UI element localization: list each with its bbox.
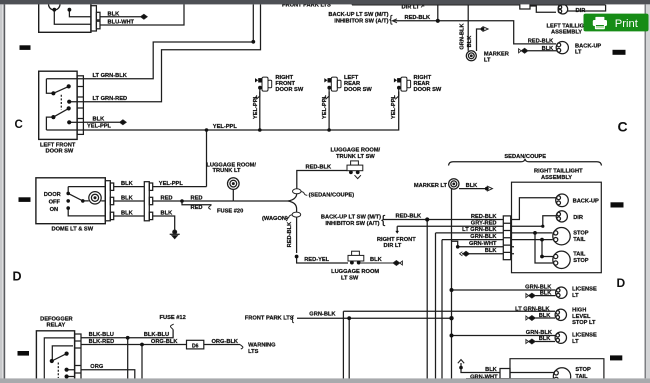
svg-text:FUSE #12: FUSE #12	[160, 315, 186, 321]
svg-text:LT GRN-BLK: LT GRN-BLK	[462, 227, 497, 233]
svg-text:YEL-PPL: YEL-PPL	[213, 124, 238, 130]
svg-text:YEL-PPL: YEL-PPL	[159, 181, 184, 187]
svg-text:DIR: DIR	[573, 215, 583, 221]
svg-text:FRONT PARK LTS: FRONT PARK LTS	[245, 316, 294, 322]
svg-text:{: {	[381, 212, 385, 226]
svg-text:ASSEMBLY: ASSEMBLY	[551, 30, 582, 36]
svg-text:OFF: OFF	[49, 199, 61, 205]
svg-text:BACK-UP LT SW (M/T): BACK-UP LT SW (M/T)	[321, 214, 381, 220]
svg-text:FUSE #20: FUSE #20	[217, 209, 243, 215]
svg-text:ASSEMBLY: ASSEMBLY	[541, 175, 572, 181]
svg-text:INHIBITOR SW (A/T): INHIBITOR SW (A/T)	[334, 18, 388, 24]
svg-text:RED: RED	[161, 196, 173, 202]
svg-text:RED-BLK: RED-BLK	[306, 165, 332, 171]
svg-text:BLK: BLK	[161, 211, 174, 217]
svg-text:BACK-UP: BACK-UP	[573, 199, 599, 205]
svg-text:D: D	[13, 269, 22, 283]
svg-text:LT: LT	[572, 293, 579, 299]
svg-text:TAIL: TAIL	[573, 252, 586, 258]
svg-text:C: C	[618, 119, 628, 135]
svg-text:BLK: BLK	[467, 35, 473, 48]
svg-text:ON: ON	[50, 207, 59, 213]
svg-text:BLK: BLK	[542, 46, 555, 52]
svg-text:BLK: BLK	[485, 367, 498, 373]
svg-text:DOOR: DOOR	[44, 192, 61, 198]
svg-text:DOME LT & SW: DOME LT & SW	[52, 226, 94, 232]
svg-text:DIR LT: DIR LT	[402, 4, 420, 10]
svg-text:BLK-BLU: BLK-BLU	[144, 332, 169, 338]
svg-text:ORG-BLK: ORG-BLK	[212, 339, 239, 345]
svg-text:BLK: BLK	[108, 11, 121, 17]
svg-text:DOOR SW: DOOR SW	[414, 87, 442, 93]
svg-text:BLK: BLK	[93, 116, 106, 122]
svg-text:LT GRN-BLK: LT GRN-BLK	[515, 306, 550, 312]
svg-text:LTS: LTS	[248, 349, 259, 355]
svg-text:Print: Print	[615, 18, 639, 30]
svg-text:STOP: STOP	[573, 231, 589, 237]
svg-text:RED: RED	[191, 195, 203, 201]
svg-text:BLK: BLK	[121, 196, 134, 202]
svg-text:STOP: STOP	[573, 258, 589, 264]
svg-text:DOOR SW: DOOR SW	[344, 87, 372, 93]
svg-text:RIGHT TAILLIGHT: RIGHT TAILLIGHT	[534, 169, 583, 175]
svg-text:TRUNK LT SW: TRUNK LT SW	[336, 154, 375, 160]
svg-text:YEL-PPL: YEL-PPL	[391, 94, 397, 119]
svg-text:RED-BLK: RED-BLK	[287, 221, 293, 247]
svg-text:ORG: ORG	[90, 364, 104, 370]
svg-text:BLK: BLK	[540, 290, 553, 296]
svg-text:BACK-UP LT SW (M/T): BACK-UP LT SW (M/T)	[328, 12, 388, 18]
svg-text:WARNING: WARNING	[248, 343, 276, 349]
svg-text:SEDAN/COUPE: SEDAN/COUPE	[504, 154, 546, 160]
svg-text:BLK: BLK	[370, 257, 383, 263]
svg-text:BLK-RED: BLK-RED	[89, 339, 115, 345]
svg-text:C: C	[15, 119, 23, 131]
svg-text:RED-BLK: RED-BLK	[471, 214, 497, 220]
svg-text:D6: D6	[192, 344, 199, 350]
svg-text:BLK: BLK	[539, 336, 552, 342]
svg-text:BLU-WHT: BLU-WHT	[108, 20, 135, 26]
svg-text:LT SW: LT SW	[341, 275, 359, 281]
svg-text:RED-BLK: RED-BLK	[405, 15, 431, 21]
svg-text:DOOR SW: DOOR SW	[46, 148, 74, 154]
svg-text:LUGGAGE ROOM: LUGGAGE ROOM	[331, 269, 379, 275]
svg-text:RED-BLK: RED-BLK	[396, 214, 422, 220]
svg-text:RED-YEL: RED-YEL	[304, 257, 329, 263]
svg-text:GRN-BLK: GRN-BLK	[460, 23, 466, 50]
svg-text:LT GRN-BLK: LT GRN-BLK	[93, 73, 128, 79]
svg-text:INHIBITOR SW (A/T): INHIBITOR SW (A/T)	[325, 221, 379, 227]
svg-text:LEVEL: LEVEL	[572, 314, 591, 320]
svg-text:RELAY: RELAY	[47, 323, 66, 329]
svg-text:RIGHT FRONT: RIGHT FRONT	[377, 237, 416, 243]
svg-text:LUGGAGE ROOM/: LUGGAGE ROOM/	[331, 148, 381, 154]
svg-text:(SEDAN/COUPE): (SEDAN/COUPE)	[309, 193, 355, 199]
svg-text:BLK-BLU: BLK-BLU	[89, 332, 114, 338]
svg-text:MARKER LT: MARKER LT	[414, 183, 448, 189]
svg-text:LT: LT	[484, 57, 491, 63]
svg-text:LT GRN-RED: LT GRN-RED	[93, 96, 128, 102]
svg-text:ORG-BLK: ORG-BLK	[151, 339, 178, 345]
svg-text:DIR: DIR	[576, 8, 586, 14]
svg-text:HIGH: HIGH	[572, 308, 586, 314]
svg-text:YEL-PPL: YEL-PPL	[253, 94, 259, 119]
svg-text:GRN-BLK: GRN-BLK	[470, 234, 497, 240]
svg-text:STOP: STOP	[575, 367, 591, 373]
svg-text:(WAGON): (WAGON)	[262, 216, 288, 222]
svg-text:LICENSE: LICENSE	[572, 287, 597, 293]
svg-text:BLK: BLK	[121, 181, 134, 187]
svg-text:DEFOGGER: DEFOGGER	[40, 316, 73, 322]
svg-text:LEFT FRONT: LEFT FRONT	[40, 142, 76, 148]
svg-text:BLK: BLK	[121, 211, 134, 217]
svg-text:TRUNK LT: TRUNK LT	[213, 168, 242, 174]
svg-text:TAIL: TAIL	[573, 237, 586, 243]
svg-text:{: {	[291, 314, 294, 324]
svg-text:GRN-BLK: GRN-BLK	[309, 311, 336, 317]
svg-text:GRN-WHT: GRN-WHT	[469, 241, 497, 247]
svg-text:DIR LT: DIR LT	[384, 243, 402, 249]
svg-text:BLK: BLK	[466, 183, 479, 189]
svg-text:LICENSE: LICENSE	[572, 333, 597, 339]
svg-text:GRY-RED: GRY-RED	[471, 221, 497, 227]
svg-text:D: D	[617, 276, 626, 290]
svg-text:STOP LT: STOP LT	[572, 320, 596, 326]
svg-text:BLK: BLK	[485, 248, 498, 254]
svg-text:LT: LT	[572, 339, 579, 345]
svg-text:YEL-PPL: YEL-PPL	[322, 94, 328, 119]
svg-text:{: {	[389, 15, 393, 26]
svg-text:BLK: BLK	[539, 313, 552, 319]
svg-text:LT: LT	[575, 50, 582, 56]
svg-text:DOOR SW: DOOR SW	[275, 87, 303, 93]
svg-text:YEL-PPL: YEL-PPL	[87, 123, 112, 129]
svg-text:RED-BLK: RED-BLK	[528, 39, 554, 45]
svg-text:RED: RED	[191, 205, 203, 211]
